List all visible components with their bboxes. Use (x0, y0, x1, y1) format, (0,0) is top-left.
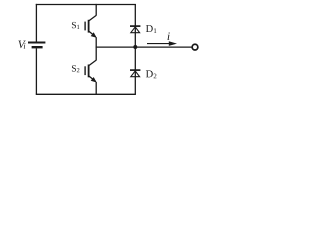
current arrow i (147, 41, 177, 46)
wire output mid bus (96, 46, 192, 48)
wire left branch lower (35, 48, 37, 94)
transistor S2 (85, 60, 97, 82)
node junction dot (133, 45, 137, 49)
voltage source Vi battery long plate (28, 42, 45, 44)
label i current (168, 32, 170, 40)
wire S-branch emitter to bottom bus (95, 82, 97, 94)
output terminal circle (192, 44, 198, 50)
wire S-branch middle (95, 37, 97, 60)
label Vi (18, 41, 25, 49)
label D1 (146, 25, 156, 33)
label S1 (72, 22, 79, 29)
transistor S1 (85, 15, 97, 37)
wire S-branch collector stub (95, 4, 97, 16)
wire left branch upper (35, 4, 37, 42)
diode D1 (130, 26, 140, 33)
wire bottom bus (36, 93, 136, 95)
wire D-branch upper (through D1) (134, 4, 136, 47)
diode D2 (130, 70, 140, 77)
wire top bus (36, 4, 136, 6)
label D2 (146, 70, 157, 78)
voltage source Vi battery short plate (32, 46, 43, 48)
label S2 (72, 65, 79, 72)
wire D-branch lower (through D2) (134, 47, 136, 94)
